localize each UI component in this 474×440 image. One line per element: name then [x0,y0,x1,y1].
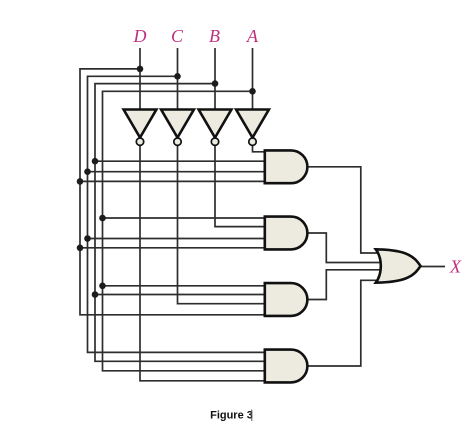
wire D bus tap to AND2 input 4 [80,247,265,249]
wire B branch to left bus and AND4 input 2 [95,84,265,362]
wire B bus tap to AND3 input 2 [95,294,265,296]
AND gate 3 [265,283,308,316]
wire D bus tap to AND1 input 4 [80,180,265,182]
wire C input stem [177,48,179,110]
inverter for A [236,110,269,146]
svg-text:C: C [171,26,184,46]
svg-text:A: A [246,26,259,46]
wire D branch to left bus and AND3 input 4 [80,69,265,315]
wire OR output to X [421,266,446,268]
junction B bus at AND3 input 2 [92,291,99,298]
junction on C input stem [174,73,181,80]
caption text cursor [251,410,253,422]
svg-text:B: B [209,26,220,46]
wire D-not from inverter to AND4 input 4 [140,146,265,381]
AND gate 2 [265,217,308,250]
junction A bus at AND3 input 1 [99,283,106,290]
junction on B input stem [212,80,219,87]
wire B input stem [214,48,216,110]
wire A bus tap to AND3 input 1 [103,285,265,287]
junction A bus at AND2 input 1 [99,215,106,222]
junction C bus at AND1 input 3 [84,168,91,175]
OR gate [376,249,421,282]
junction on A input stem [249,88,256,95]
junction on D input stem [137,66,144,73]
inverter for B [199,110,232,146]
svg-text:X: X [449,257,462,277]
wire AND4 output to OR input 4 [308,280,382,366]
wire C branch to left bus and AND4 input 1 [88,76,265,352]
AND gate 4 [265,350,308,383]
wire AND1 output to OR input 1 [308,167,382,253]
inverter for C [161,110,194,146]
junction D bus at AND2 input 4 [77,245,84,252]
junction B bus at AND1 input 2 [92,158,99,165]
svg-text:D: D [133,26,147,46]
svg-text:Figure 3: Figure 3 [210,410,253,422]
wire C-not from inverter to AND3 input 3 [178,146,265,304]
wire AND2 output to OR input 2 [308,233,387,263]
wire C bus tap to AND2 input 3 [88,238,265,240]
wire D input stem [139,48,141,110]
wire A-not from inverter to AND1 input 1 [253,146,265,152]
junction C bus at AND2 input 3 [84,235,91,242]
wire B bus tap to AND1 input 2 [95,160,265,162]
wire A input stem [252,48,254,110]
AND gate 1 [265,150,308,183]
inverter for D [124,110,157,146]
wire A branch to left bus and AND4 input 3 [103,91,265,371]
wire B-not from inverter to AND2 input 2 [215,146,265,227]
wire A bus tap to AND2 input 1 [103,217,265,219]
wire AND3 output to OR input 3 [308,270,387,300]
wire C bus tap to AND1 input 3 [88,171,265,173]
junction D bus at AND1 input 4 [77,178,84,185]
